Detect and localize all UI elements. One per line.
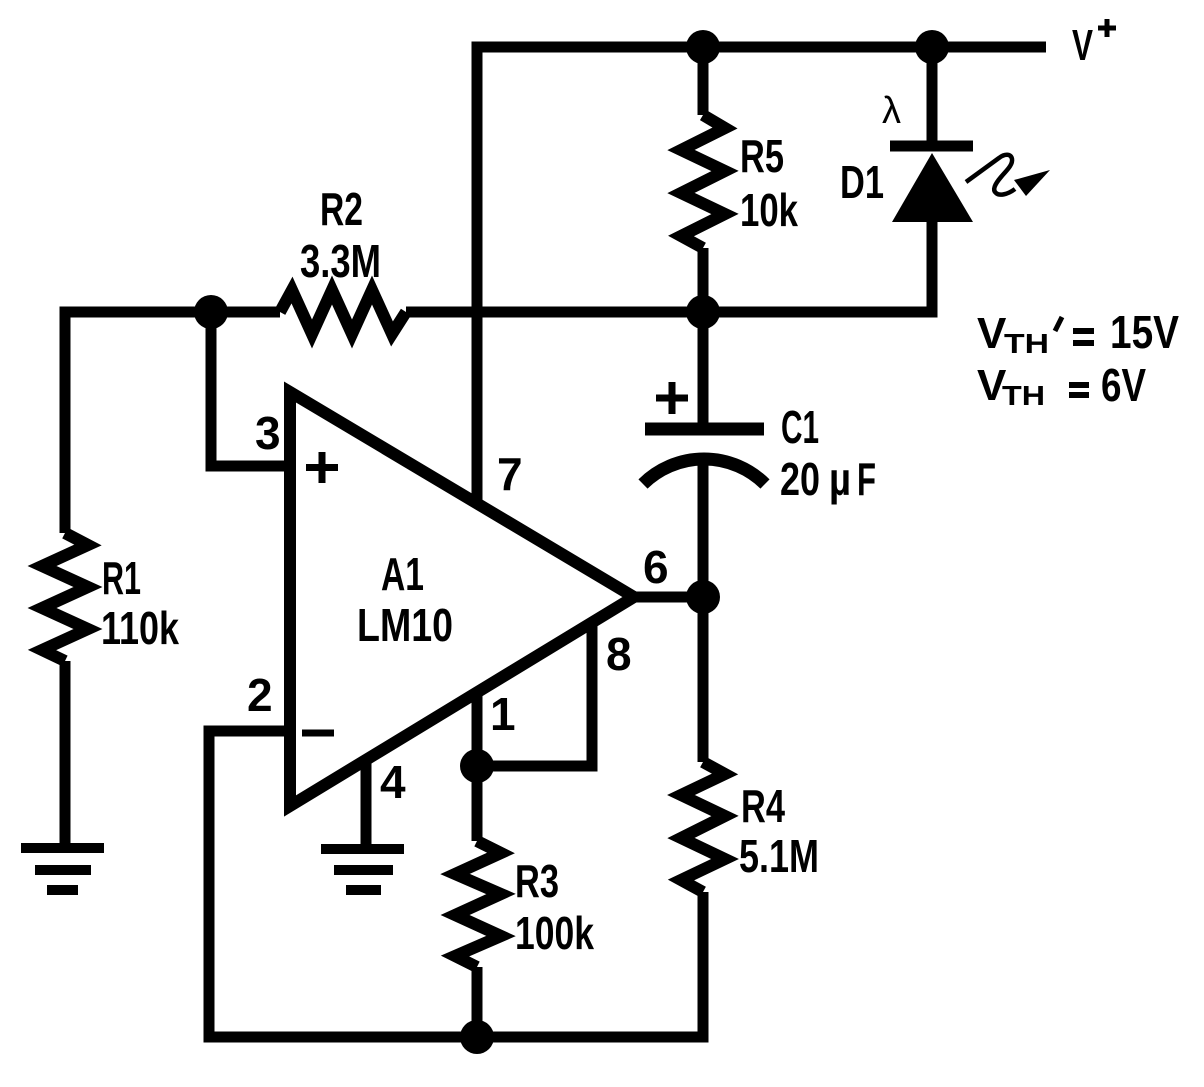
wire pin3 from node to op-amp xyxy=(206,312,291,466)
resistor R4 xyxy=(681,597,725,1043)
svg-text:D1: D1 xyxy=(840,156,884,208)
label V+ xyxy=(1072,19,1116,70)
resistor R2 xyxy=(280,290,406,334)
svg-text:3.3M: 3.3M xyxy=(300,235,381,287)
resistor R1 xyxy=(42,307,88,849)
label VTH = 6V xyxy=(977,359,1146,411)
wire feedback rail left of R2 xyxy=(60,307,281,318)
op-amp minus input symbol xyxy=(302,730,334,737)
svg-text:20: 20 xyxy=(780,453,820,505)
svg-text:1: 1 xyxy=(490,688,516,740)
wire feedback rail right of R2 xyxy=(406,307,938,318)
svg-text:C1: C1 xyxy=(781,401,819,453)
svg-text:V: V xyxy=(1072,21,1093,70)
label R3 100k xyxy=(515,855,594,959)
label VTH' = 15V xyxy=(977,306,1179,359)
node junction pin1/pin8/R3 xyxy=(460,749,494,783)
node junction R5/C1/feedback xyxy=(686,295,720,329)
label A1 LM10 xyxy=(357,548,453,651)
label R1 110k xyxy=(101,552,179,654)
svg-text:A1: A1 xyxy=(381,548,424,600)
svg-text:TH: TH xyxy=(1002,380,1045,411)
node junction R1/R2/pin3 xyxy=(194,295,228,329)
svg-text:R4: R4 xyxy=(741,780,785,832)
svg-text:5.1M: 5.1M xyxy=(739,830,819,882)
op-amp plus input symbol xyxy=(306,452,338,483)
capacitor C1 plus symbol xyxy=(656,382,688,414)
svg-text:V: V xyxy=(977,309,1007,358)
svg-text:TH: TH xyxy=(1004,328,1049,359)
op-amp A1 triangle xyxy=(290,392,634,806)
label R4 5.1M xyxy=(739,780,819,882)
svg-text:100k: 100k xyxy=(515,907,594,959)
resistor R3 xyxy=(455,841,501,1037)
node junction V+ rail / D1 xyxy=(915,30,949,64)
label C1 20uF xyxy=(780,401,876,505)
svg-text:µ: µ xyxy=(829,453,851,505)
wire bottom rail xyxy=(204,1032,704,1043)
resistor R5 xyxy=(681,47,725,312)
svg-text:R3: R3 xyxy=(515,855,559,907)
wire pin7 drop from V+ rail xyxy=(472,42,483,504)
svg-text:R2: R2 xyxy=(320,183,363,235)
svg-text:LM10: LM10 xyxy=(357,599,453,651)
node junction V+ rail / R5 xyxy=(686,30,720,64)
capacitor C1 xyxy=(643,312,765,597)
svg-text:7: 7 xyxy=(497,448,523,500)
wire pin6 output xyxy=(634,592,703,603)
ground (R1 bottom) xyxy=(21,848,104,890)
ground (pin 4) xyxy=(321,849,404,890)
label R5 10k xyxy=(740,130,798,236)
LED D1 xyxy=(890,47,973,312)
svg-text:15V: 15V xyxy=(1110,306,1179,358)
svg-text:4: 4 xyxy=(380,756,406,808)
svg-text:8: 8 xyxy=(606,628,632,680)
svg-text:R5: R5 xyxy=(740,130,784,182)
wire pin8 xyxy=(477,622,598,766)
svg-text:R1: R1 xyxy=(102,552,141,604)
wire pin2 to bottom rail xyxy=(204,726,291,1038)
svg-text:2: 2 xyxy=(247,669,273,721)
label R2 3.3M xyxy=(300,183,381,287)
svg-text:3: 3 xyxy=(255,407,281,459)
svg-text:F: F xyxy=(857,453,876,505)
svg-text:6: 6 xyxy=(643,541,669,593)
svg-text:λ: λ xyxy=(882,90,901,132)
light emission squiggle arrow xyxy=(966,155,1050,196)
wire pin4 stem xyxy=(361,757,372,848)
wire pin1 column xyxy=(472,693,483,841)
svg-text:110k: 110k xyxy=(101,602,179,654)
node junction bottom rail / R3 xyxy=(460,1020,494,1054)
node 6 junction xyxy=(686,580,720,614)
wire top V+ rail xyxy=(477,42,1046,53)
svg-text:10k: 10k xyxy=(740,184,798,236)
svg-text:6V: 6V xyxy=(1101,359,1146,411)
